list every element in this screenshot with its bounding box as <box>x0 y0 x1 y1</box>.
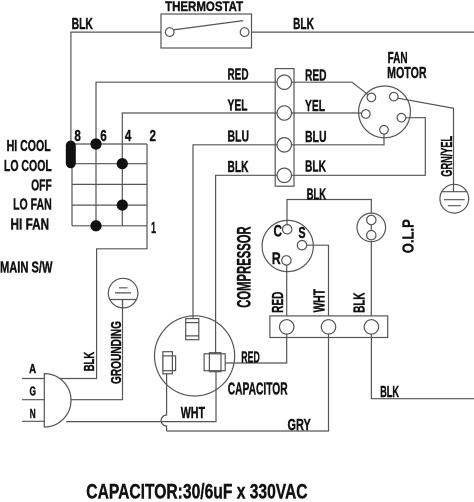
terminal strip circle WHT <box>321 320 335 334</box>
O.L.P terminal lower <box>367 231 376 240</box>
connector terminal BLU <box>277 138 291 152</box>
capacitor left terminal <box>163 352 173 374</box>
wire BLK compressor C to O.L.P <box>287 200 371 225</box>
compressor pin C <box>283 225 292 234</box>
svg-text:2: 2 <box>150 128 157 145</box>
svg-text:THERMOSTAT: THERMOSTAT <box>165 0 244 14</box>
svg-text:RED: RED <box>228 66 249 83</box>
svg-text:YEL: YEL <box>305 98 325 115</box>
main switch contact dot 6 HI COOL <box>90 138 101 149</box>
svg-text:LO COOL: LO COOL <box>4 158 52 175</box>
svg-text:YEL: YEL <box>228 98 248 115</box>
fan motor pin top-right <box>390 92 399 101</box>
fan motor pin bottom <box>380 126 389 135</box>
svg-text:HI FAN: HI FAN <box>11 216 50 233</box>
svg-text:GRN/YEL: GRN/YEL <box>439 136 456 177</box>
wire YEL connector to main switch col 4 <box>122 113 278 226</box>
svg-text:WHT: WHT <box>181 405 205 422</box>
main switch contact dot 6 HI FAN <box>90 220 101 231</box>
wire RED terminal strip to capacitor right terminal <box>225 334 287 363</box>
svg-text:HI COOL: HI COOL <box>7 138 51 155</box>
wire RED compressor R to terminal strip <box>286 265 288 316</box>
svg-text:6: 6 <box>100 128 107 145</box>
wire N to plug <box>22 420 44 422</box>
wire compressor S to terminal strip WHT <box>307 245 329 316</box>
compressor pin R <box>282 256 291 265</box>
O.L.P body <box>357 213 386 242</box>
svg-text:BLK: BLK <box>228 159 249 176</box>
terminal strip <box>270 316 388 338</box>
svg-text:RED: RED <box>305 68 327 85</box>
svg-text:BLK: BLK <box>81 352 98 372</box>
svg-text:RED: RED <box>270 292 287 313</box>
wire BLK main switch 1 to plug <box>59 226 147 379</box>
capacitor right terminal <box>204 354 225 371</box>
fan earth symbol <box>442 192 467 206</box>
svg-text:BLK: BLK <box>307 187 327 204</box>
connector block <box>275 69 294 187</box>
wire WHT capacitor right terminal to plug <box>66 372 216 422</box>
O.L.P terminal link <box>370 225 372 231</box>
wire BLK thermostat right <box>252 31 474 33</box>
svg-text:N: N <box>30 407 36 421</box>
svg-text:GRY: GRY <box>288 417 312 434</box>
wire BLK thermostat left to main switch <box>71 32 161 140</box>
svg-text:1: 1 <box>151 220 156 237</box>
svg-text:R: R <box>272 249 281 268</box>
wire BLK terminal strip to right edge <box>371 334 474 399</box>
wire RED connector to fan motor <box>291 82 368 95</box>
capacitor top terminal <box>186 319 199 340</box>
main switch contact dot 4 LO FAN <box>117 200 128 211</box>
wire BLK connector to capacitor right terminal <box>216 175 278 354</box>
svg-text:OFF: OFF <box>31 178 52 195</box>
svg-text:BLK: BLK <box>305 158 326 175</box>
power plug <box>44 374 71 427</box>
O.L.P terminal upper <box>367 215 376 224</box>
thermostat box <box>161 14 252 48</box>
svg-text:MOTOR: MOTOR <box>387 65 427 82</box>
wire YEL connector to fan motor <box>291 112 362 114</box>
wire GRY terminal strip WHT to capacitor left terminal <box>167 334 329 431</box>
wire RED connector to main switch col 6 <box>96 82 278 226</box>
svg-text:BLU: BLU <box>305 129 327 146</box>
wire BLU connector to fan motor bottom pin <box>291 134 384 145</box>
connector terminal BLK <box>277 168 291 182</box>
grounding earth circle <box>108 278 138 308</box>
thermostat terminal right <box>240 28 249 37</box>
compressor body <box>262 220 313 271</box>
svg-text:LO FAN: LO FAN <box>13 197 52 214</box>
svg-text:RED: RED <box>241 350 259 367</box>
svg-text:BLK: BLK <box>72 16 94 33</box>
svg-text:CAPACITOR: CAPACITOR <box>228 378 288 398</box>
terminal strip circle RED <box>280 320 294 334</box>
svg-text:S: S <box>298 225 305 242</box>
svg-text:A: A <box>29 362 36 376</box>
terminal strip circle BLK <box>364 320 378 334</box>
svg-text:BLK: BLK <box>293 16 314 33</box>
wire capacitor left terminal hop over WHT <box>161 374 167 431</box>
svg-text:GROUNDING: GROUNDING <box>108 321 125 384</box>
wire A phase to plug <box>22 378 44 380</box>
svg-text:BLU: BLU <box>228 129 250 146</box>
wire BLK connector to fan motor right pin <box>291 118 425 176</box>
svg-text:8: 8 <box>74 128 81 145</box>
main switch contact dot 4 LO COOL <box>117 158 128 169</box>
grounding earth symbol <box>111 288 137 308</box>
thermostat terminal left <box>165 28 174 37</box>
main switch grid <box>72 144 147 226</box>
wire G to plug <box>22 399 44 401</box>
svg-text:C: C <box>274 221 283 240</box>
svg-text:BLK: BLK <box>380 384 399 401</box>
wire O.L.P to terminal strip BLK <box>370 242 372 316</box>
wire plug to grounding <box>71 300 123 400</box>
svg-text:WHT: WHT <box>311 289 328 313</box>
main switch position 8 pill <box>66 141 76 169</box>
wire BLU connector to capacitor top terminal <box>193 145 278 320</box>
wire GRN/YEL fan motor to earth <box>398 98 454 192</box>
svg-text:BLK: BLK <box>352 292 369 312</box>
fan motor body <box>359 86 411 138</box>
fan motor pin top-left <box>367 93 376 102</box>
svg-text:O.L.P: O.L.P <box>401 219 418 253</box>
svg-text:COMPRESSOR: COMPRESSOR <box>235 226 256 307</box>
capacitor body <box>155 316 235 396</box>
compressor pin S <box>297 241 306 250</box>
svg-text:CAPACITOR:30/6uF x 330VAC: CAPACITOR:30/6uF x 330VAC <box>86 481 307 502</box>
connector terminal RED <box>277 75 291 89</box>
fan motor pin left <box>362 110 371 119</box>
thermostat blade <box>173 21 244 30</box>
fan motor pin right <box>397 113 406 122</box>
svg-text:MAIN S/W: MAIN S/W <box>0 260 53 277</box>
fan earth circle <box>440 184 469 213</box>
svg-text:4: 4 <box>125 128 132 145</box>
svg-text:G: G <box>30 385 37 399</box>
connector terminal YEL <box>277 106 291 120</box>
